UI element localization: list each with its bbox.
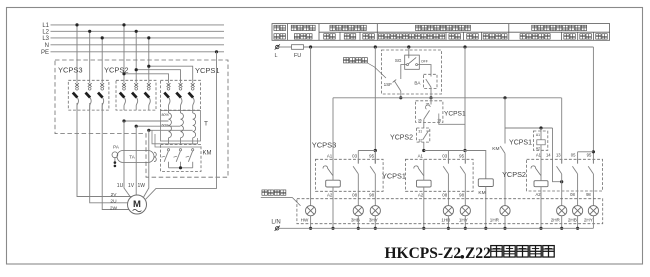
relay coil YCPS1 (A1/A2)	[533, 128, 547, 159]
svg-text:HKCPS-Z2: HKCPS-Z2	[385, 245, 462, 262]
wire YCPS3 coil feed A1	[332, 98, 334, 160]
wire tap 60%	[136, 125, 180, 127]
breaker YCPS3 (power poles)	[68, 80, 109, 110]
wire tap underpass	[152, 130, 198, 144]
svg-text:1HY: 1HY	[459, 218, 468, 223]
svg-text:L1: L1	[42, 23, 49, 29]
svg-text:A1: A1	[418, 153, 424, 158]
pushbutton 1SF	[384, 80, 401, 98]
svg-text:80%: 80%	[162, 113, 170, 117]
svg-text:60%: 60%	[162, 123, 170, 127]
svg-text:2V: 2V	[111, 192, 118, 198]
wire 1V motor lead	[135, 126, 137, 195]
wire 98 to lamp 2HY	[592, 191, 594, 206]
svg-text:YCPS1: YCPS1	[444, 111, 466, 118]
lamp 1HB	[441, 206, 453, 223]
wire tap L2 to YCPS1 pole2	[136, 70, 180, 81]
motor M	[128, 195, 147, 214]
svg-text:95: 95	[459, 153, 464, 158]
wire 08 to lamp 1HB	[447, 191, 449, 205]
wire full-volt rail from top bus	[592, 47, 594, 164]
wire lamp 1HY to L/N bus	[464, 216, 466, 229]
svg-text:1HR: 1HR	[490, 218, 500, 223]
relay block YCPS1 (coil + aux contacts 03/95)	[405, 151, 473, 198]
svg-text:08: 08	[352, 192, 357, 197]
svg-text:31: 31	[418, 129, 422, 133]
wire terminal to fuse	[279, 46, 291, 48]
lamp 1HR	[490, 206, 510, 223]
svg-text:A1: A1	[327, 153, 333, 158]
wire SG manual throw	[401, 65, 407, 79]
wire YCPS1 A2 down	[423, 191, 425, 228]
wire lamp 2HY to L/N bus	[592, 216, 594, 229]
wire 98 to lamp 1HY	[464, 191, 466, 205]
wire L3 drop to YCPS2	[148, 38, 150, 80]
wire L1 drop to YCPS3	[76, 25, 78, 80]
wire lamp 3HB to L/N bus	[357, 216, 359, 229]
svg-text:A2: A2	[418, 192, 424, 197]
wire 13 to lamp 2HR	[561, 191, 563, 206]
wire lamp 2HR to L/N bus	[561, 216, 563, 229]
autotransformer T	[122, 110, 200, 147]
bus L1	[51, 24, 225, 26]
wire YCPS3 A2 down	[332, 191, 334, 228]
bus PE	[51, 51, 225, 53]
terminal L/N	[276, 227, 279, 230]
wire YCPS2 A2 down	[540, 191, 542, 228]
svg-text:L/N: L/N	[271, 220, 280, 226]
svg-text:L3: L3	[42, 36, 49, 42]
wire lamp HW to L/N bus	[310, 216, 312, 229]
contactor KM (star point)	[161, 145, 202, 172]
lamp 1HY	[459, 206, 471, 223]
contact YCPS2 31/32 (interlock)	[417, 128, 431, 142]
lamp 2HB	[568, 206, 583, 223]
wire 98 to lamp 3HY	[374, 191, 376, 205]
contactor coil KM	[478, 179, 493, 229]
wire YCPS3 95 rail	[374, 47, 376, 164]
svg-text:A2: A2	[536, 146, 540, 150]
wire lamp 1HB to L/N bus	[447, 216, 449, 229]
svg-text:95: 95	[587, 153, 592, 158]
wire 2U motor lead	[90, 103, 128, 203]
bus L3	[51, 37, 225, 39]
svg-text:KM: KM	[478, 190, 485, 196]
svg-text:98: 98	[369, 192, 374, 197]
wire start branch rail	[464, 47, 466, 151]
lamp 3HB	[351, 206, 364, 223]
svg-text:A1: A1	[536, 133, 540, 137]
svg-text:YCPS1: YCPS1	[195, 66, 220, 75]
wire control bus 2	[333, 97, 562, 99]
svg-text:95: 95	[369, 153, 374, 158]
title HKCPS-Z2 Z22 control circuit diagram	[385, 245, 555, 262]
wire YCPS1 coil feed	[505, 127, 553, 129]
bus L2	[51, 30, 225, 32]
svg-text:08: 08	[570, 192, 575, 197]
svg-text:2U: 2U	[110, 198, 117, 204]
selector switch SG	[395, 47, 428, 69]
wire lamp 3HY to L/N bus	[374, 216, 376, 229]
fuse FU	[292, 45, 304, 50]
svg-text:1HB: 1HB	[441, 218, 450, 223]
wire lamp 1HR to L/N bus	[504, 216, 506, 229]
svg-text:HW: HW	[301, 218, 309, 223]
wire 1U motor lead	[124, 121, 130, 197]
wire L3 drop to YCPS3	[101, 38, 103, 80]
svg-text:SG: SG	[395, 58, 402, 63]
wire 1W motor lead	[144, 130, 149, 197]
svg-text:14: 14	[546, 153, 551, 158]
wire L1 drop to YCPS2	[123, 25, 125, 80]
lamp 3HY	[369, 206, 381, 223]
wire 36 throw down	[423, 119, 425, 128]
svg-text:YCPS2: YCPS2	[104, 66, 129, 75]
svg-text:YCPS3: YCPS3	[58, 66, 83, 75]
svg-text:2HB: 2HB	[568, 218, 577, 223]
svg-text:YCPS1: YCPS1	[509, 139, 532, 146]
svg-text:13: 13	[556, 153, 561, 158]
svg-text:08: 08	[442, 192, 447, 197]
wire bottom L/N bus	[279, 227, 593, 229]
svg-text:98: 98	[586, 192, 591, 197]
wire lamp 2HB to L/N bus	[577, 216, 579, 229]
label user-supplied (lamps) with leader	[262, 190, 267, 195]
wire tap bottom	[149, 129, 193, 131]
svg-text:2HR: 2HR	[551, 218, 561, 223]
svg-text:98: 98	[459, 192, 464, 197]
wire 08 to lamp 2HB	[577, 191, 579, 206]
user-supplied control box (dashed)	[382, 50, 442, 94]
svg-text:1W: 1W	[137, 183, 145, 189]
svg-text:A1: A1	[536, 153, 542, 158]
wire 38 throw to start rail	[439, 118, 465, 124]
svg-text:1SF: 1SF	[384, 82, 393, 87]
svg-text:1U: 1U	[117, 183, 124, 189]
signal table	[272, 24, 610, 41]
wire tap 80%	[124, 120, 169, 122]
wire 2V motor lead	[77, 103, 131, 197]
bus N	[51, 44, 225, 46]
svg-text:YCPS1: YCPS1	[382, 171, 406, 180]
wire row3 KM coil feed	[424, 151, 486, 179]
svg-text:05: 05	[571, 153, 576, 158]
label user-supplied with leader	[343, 58, 348, 63]
relay block YCPS3 (coil + aux contacts 03/95)	[315, 151, 383, 198]
svg-text:KM: KM	[492, 146, 499, 152]
svg-text:03: 03	[442, 153, 447, 158]
wire seal-in 14	[553, 128, 562, 182]
svg-text:OFF: OFF	[421, 59, 428, 63]
wire tap L1 to YCPS1 pole1	[124, 74, 169, 81]
breaker YCPS2 (power poles)	[116, 80, 156, 110]
svg-text:YCPS2: YCPS2	[390, 135, 413, 142]
svg-text:BA: BA	[414, 81, 421, 86]
changeover contact YCPS1 35/36	[416, 98, 443, 123]
svg-text:32: 32	[418, 138, 422, 142]
ammeter PA	[112, 144, 119, 167]
wire PE to motor frame	[215, 50, 218, 53]
svg-text:Z22: Z22	[465, 245, 491, 262]
svg-text:36: 36	[418, 118, 422, 122]
terminal L	[276, 45, 279, 48]
svg-text:A2: A2	[327, 192, 333, 197]
svg-text:M: M	[133, 199, 141, 210]
contact BA (remote auto)	[414, 74, 437, 98]
wire L2 drop to YCPS2	[135, 31, 137, 80]
lamp 2HR	[551, 206, 567, 223]
breaker YCPS1 (power poles)	[161, 80, 201, 110]
lamp 2HY	[584, 206, 599, 223]
current transformer TA	[117, 151, 156, 163]
svg-text:3HY: 3HY	[369, 218, 378, 223]
lamp HW	[301, 206, 316, 223]
enclosure: main power compartment dashed outline	[55, 60, 228, 177]
wire 05 elbow	[578, 151, 594, 153]
svg-text:A2: A2	[535, 192, 541, 197]
svg-text:T: T	[204, 121, 208, 128]
relay block YCPS2 (coil + contacts 13/05/95)	[527, 98, 603, 197]
wire HW lamp rail	[310, 47, 312, 206]
svg-text:YCPS3: YCPS3	[312, 141, 337, 150]
svg-text:YCPS2: YCPS2	[502, 170, 526, 179]
wire L2 drop to YCPS3	[89, 31, 91, 80]
svg-text:38: 38	[437, 118, 441, 122]
wire 32 to row3	[423, 142, 425, 150]
svg-text:TA: TA	[129, 154, 134, 159]
svg-text:KM: KM	[203, 151, 212, 157]
wire top control bus	[304, 46, 594, 48]
svg-text:PE: PE	[41, 50, 49, 56]
svg-text:N: N	[45, 43, 49, 49]
svg-text:PA: PA	[113, 144, 119, 149]
svg-text:2HY: 2HY	[584, 218, 593, 223]
wire SG auto throw	[418, 65, 431, 75]
svg-text:FU: FU	[294, 53, 301, 59]
svg-text:03: 03	[352, 153, 357, 158]
wire 2W motor lead	[102, 103, 129, 210]
lamp panel box (dashed, user-supplied)	[297, 199, 603, 224]
wire 08 to lamp 3HB	[357, 191, 359, 205]
svg-text:L2: L2	[42, 29, 49, 35]
svg-text:L: L	[274, 53, 277, 59]
wire tap L3 to YCPS1 pole3	[149, 66, 193, 80]
aux contact KM	[492, 98, 505, 206]
svg-text:1V: 1V	[128, 183, 135, 189]
svg-text:2W: 2W	[110, 206, 118, 212]
